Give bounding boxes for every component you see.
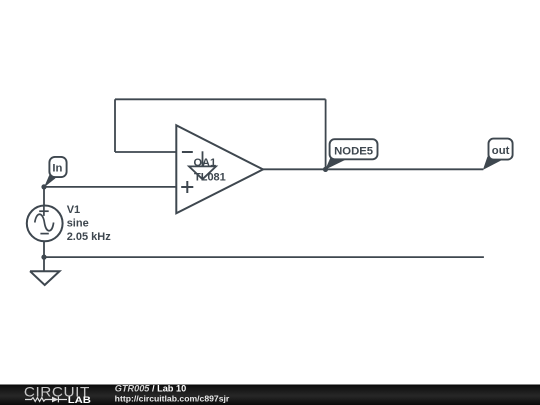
- svg-text:LAB: LAB: [68, 395, 92, 405]
- wire output: op-amp apex to out flag: [263, 168, 483, 170]
- svg-text:In: In: [52, 163, 62, 175]
- op-amp OA1: [176, 125, 263, 213]
- node In: junction dot: [41, 184, 46, 189]
- voltage source V1: [27, 206, 63, 242]
- svg-text:V1: V1: [67, 204, 80, 216]
- node NODE5: junction dot at output: [323, 167, 328, 172]
- wire feedback: right vertical down to output node: [325, 99, 327, 169]
- pin plus: [181, 186, 193, 188]
- svg-text:sine: sine: [67, 218, 89, 230]
- wire feedback: minus input to left vertical: [115, 151, 176, 153]
- wire: V1 bottom terminal down to ground node: [43, 241, 45, 271]
- svg-text:GTR005 / Lab 10: GTR005 / Lab 10: [115, 384, 187, 394]
- svg-text:NODE5: NODE5: [334, 145, 373, 157]
- wire: node In down to V1 top terminal: [43, 187, 45, 206]
- svg-text:http://circuitlab.com/c897sjr: http://circuitlab.com/c897sjr: [115, 395, 230, 404]
- footer bar: [0, 385, 540, 405]
- wire feedback: top horizontal: [115, 98, 326, 100]
- wire: ground net horizontal: [44, 256, 484, 258]
- svg-text:2.05 kHz: 2.05 kHz: [67, 231, 112, 243]
- flag In: [44, 157, 67, 188]
- op-amp internal negative supply symbol: [202, 151, 204, 166]
- ground: [30, 271, 60, 285]
- flag NODE5: [325, 139, 377, 169]
- wire feedback: left vertical up: [114, 99, 116, 152]
- wire input: node In to op-amp plus input: [44, 186, 176, 188]
- logo resistor-diode line: [25, 397, 67, 403]
- node ground net: junction dot: [41, 255, 46, 260]
- svg-text:TL081: TL081: [194, 172, 226, 184]
- flag out: [483, 139, 513, 170]
- svg-text:out: out: [492, 145, 510, 157]
- pin minus: [182, 151, 193, 153]
